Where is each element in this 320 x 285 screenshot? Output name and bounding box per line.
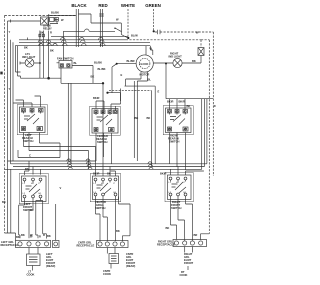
svg-text:BL: BL (148, 78, 152, 82)
terminal strip TB3 right grill receptacle (173, 240, 207, 247)
wire LP1 left terminal (20, 62, 25, 65)
svg-text:RECEPTACLE: RECEPTACLE (77, 244, 95, 248)
wire riser to E (102, 83, 104, 176)
terminal strip TB1 left grill receptacle (16, 240, 51, 247)
wire light to clock (153, 62, 173, 64)
switch S2 enclosure (90, 106, 121, 135)
node junction white (127, 37, 129, 39)
wire red supply pair (99, 9, 104, 47)
node T terminal left (10, 20, 12, 23)
wire fan switch feed (62, 31, 64, 60)
wire clock top feed (146, 46, 153, 55)
svg-text:RELAY: RELAY (43, 27, 52, 31)
svg-text:SWITCH: SWITCH (95, 206, 106, 210)
element left grill (27, 254, 41, 266)
wire label BK relay drop (50, 49, 54, 53)
wire fuse to light (182, 56, 201, 64)
svg-text:E: E (121, 73, 123, 77)
switch S7 enclosure (165, 173, 193, 202)
switch S6 enclosure (90, 174, 121, 202)
lamp right indicator light (173, 58, 182, 67)
wire light junction to S3 (166, 64, 213, 99)
svg-text:BK: BK (25, 167, 29, 171)
terminal strip TB1 top wires (16, 186, 62, 240)
svg-text:BLACK: BLACK (71, 3, 87, 8)
wire white dashed to fuse (129, 31, 201, 48)
switch S6 center grill (93, 176, 119, 200)
svg-text:RECEPTACLE: RECEPTACLE (157, 243, 175, 247)
switch S2 center rear (92, 109, 118, 134)
switch S5 bottom leads (19, 198, 47, 239)
switch S3 top leads (167, 99, 190, 110)
node junction k (102, 82, 104, 84)
svg-text:FRONT: FRONT (184, 261, 193, 265)
element center grill wires (107, 248, 115, 269)
wire bus y45 (15, 43, 150, 45)
wire left riser 2 (8, 21, 12, 233)
svg-text:BK: BK (187, 104, 191, 108)
wire clock left feed (112, 63, 136, 93)
switch S5 top leads (25, 161, 41, 175)
svg-text:Y: Y (9, 87, 11, 91)
wire label BK strip3 (166, 226, 170, 230)
svg-text:BK: BK (50, 49, 54, 53)
terminal strip TB2 top wires (100, 229, 120, 238)
node chassis junction (47, 77, 50, 80)
svg-text:R: R (50, 31, 52, 35)
element center grill (109, 254, 119, 264)
svg-text:IND LIGHT: IND LIGHT (169, 55, 183, 59)
switch S1 left rear (20, 107, 46, 133)
wire mid bus y164 (11, 162, 207, 164)
wire left riser 3 (11, 40, 14, 164)
wire relay feed (11, 20, 41, 22)
svg-text:FAN SWITCH: FAN SWITCH (57, 57, 74, 61)
wire label Y left (9, 30, 28, 91)
wire label W door (116, 18, 138, 38)
svg-text:BK/R: BK/R (179, 100, 186, 104)
svg-text:GREEN: GREEN (145, 3, 161, 8)
wire label BL/BK fan right (74, 61, 106, 79)
terminal strip TB1 label (1, 240, 19, 247)
wire right drop to strip3 (201, 234, 210, 240)
node junction light feed (165, 63, 167, 65)
svg-text:E: E (158, 90, 160, 94)
svg-text:(REAR): (REAR) (126, 264, 135, 268)
clock motor M1 (136, 55, 153, 72)
svg-text:BK: BK (135, 116, 139, 120)
node junction green (153, 30, 155, 32)
svg-text:BL/BK: BL/BK (51, 11, 59, 15)
wire label BK left margin (2, 200, 6, 204)
switch S1 top leads (13, 96, 41, 107)
svg-text:BK: BK (21, 233, 25, 237)
svg-text:SWITCH: SWITCH (169, 140, 180, 144)
wire label W (61, 18, 64, 22)
wire black supply pair (76, 9, 78, 47)
wire label D right (214, 104, 216, 108)
element right grill bottom label (180, 270, 188, 277)
svg-text:BK: BK (166, 226, 170, 230)
switch S3 enclosure (163, 106, 193, 135)
wire right riser 2 (201, 99, 203, 170)
wire bus y42 (19, 40, 150, 42)
switch S2 top leads (96, 89, 121, 111)
terminal strip TB3 label (157, 240, 175, 247)
switch S5 left front (22, 176, 47, 202)
wire bus y36 (51, 35, 128, 37)
wire relay drop 3 (48, 31, 50, 79)
switch S7 top leads (160, 167, 186, 176)
svg-text:CLOCK: CLOCK (139, 62, 148, 66)
switch S7 right front (168, 175, 192, 200)
wire label BL/BK relay top (49, 11, 76, 16)
wire label BK/R above S2 (93, 96, 100, 100)
element left grill wires (29, 248, 38, 271)
switch S2 bottom leads (96, 133, 112, 164)
switch S3 right rear (166, 108, 192, 133)
svg-text:BK: BK (107, 172, 111, 176)
switch S3 label (168, 134, 180, 144)
wire green supply (153, 9, 155, 31)
svg-text:BK: BK (147, 116, 151, 120)
wire relay drop 1 (39, 31, 41, 79)
wire y78 run (18, 76, 62, 78)
relay K1 oven relay (41, 14, 59, 30)
switch S4 fan switch (59, 61, 72, 69)
wire clock lower link (125, 78, 156, 164)
wire relay drop 2 (42, 31, 44, 79)
oven door switch diagonal contacts (78, 14, 128, 38)
wire y83 run (61, 82, 103, 84)
relay K1 label (43, 24, 52, 31)
svg-text:BK: BK (16, 235, 20, 239)
wire label BK below relay (40, 31, 52, 35)
svg-text:BL/BK: BL/BK (94, 61, 102, 65)
wire mid bus y157 (18, 150, 60, 158)
element left grill bottom label (27, 270, 35, 277)
svg-text:BL: BL (74, 61, 78, 65)
wire top left dashed run (5, 15, 76, 17)
element left grill side label (46, 252, 55, 268)
svg-text:BK/R: BK/R (93, 172, 100, 176)
switch S2 label (96, 134, 108, 144)
wire label BK mid (135, 116, 151, 120)
svg-text:V: V (60, 186, 62, 190)
wire mid bus y169 (5, 167, 202, 169)
svg-text:BK/R: BK/R (93, 96, 100, 100)
switch S6 bottom leads (96, 196, 131, 241)
wire dashed mid link (109, 90, 160, 167)
switch S7 label (171, 200, 182, 210)
wire right riser 4 (206, 99, 208, 164)
terminal strip TB3 top wires (176, 233, 200, 241)
wire mid bus y161 (8, 159, 97, 161)
switch S3 bottom leads (170, 133, 186, 171)
clock label (139, 62, 149, 77)
svg-text:BK: BK (47, 234, 51, 238)
wire bus y40 (19, 38, 128, 40)
svg-text:Y: Y (9, 30, 11, 34)
wire left riser 4 (16, 46, 21, 76)
wire clock bottom leads (126, 72, 148, 162)
element center grill bottom label (103, 269, 111, 276)
svg-text:BK: BK (91, 75, 95, 79)
svg-text:COOK: COOK (27, 273, 35, 277)
element center grill side label (126, 252, 135, 268)
fuse F1 (198, 48, 204, 56)
connector left aux (53, 241, 60, 248)
svg-text:BK: BK (116, 229, 120, 233)
svg-text:BK: BK (192, 59, 196, 63)
svg-text:D: D (214, 104, 216, 108)
svg-text:BK/R: BK/R (167, 100, 174, 104)
wire bus L1 y31 (63, 29, 115, 31)
wire label BL/BR clock (127, 59, 135, 63)
svg-text:BL/W: BL/W (131, 34, 138, 38)
svg-text:R: R (39, 235, 41, 239)
svg-text:BK/R: BK/R (160, 172, 167, 176)
wire fan to junction (57, 63, 94, 84)
svg-text:COOK: COOK (180, 273, 188, 277)
wire right riser 3 (204, 99, 206, 167)
switch S1 bottom leads (24, 133, 96, 170)
wire left risers to strip (5, 169, 16, 240)
wire left riser group (4, 16, 6, 234)
switch S6 top leads (93, 157, 116, 176)
svg-text:BL/BK: BL/BK (98, 67, 106, 71)
svg-text:SWITCH: SWITCH (23, 139, 34, 143)
svg-text:(REAR): (REAR) (46, 264, 55, 268)
svg-text:BK: BK (24, 46, 28, 50)
svg-text:SWITCH: SWITCH (171, 206, 182, 210)
switch S5 label (23, 202, 34, 212)
lamp right indicator label (169, 52, 183, 59)
switch S6 label (95, 200, 106, 210)
svg-text:IND LIGHT: IND LIGHT (22, 55, 36, 59)
wire y92 run (106, 92, 120, 101)
element right grill wires (185, 247, 193, 271)
switch S1 enclosure (17, 105, 47, 135)
svg-text:BL/BR: BL/BR (127, 59, 135, 63)
terminal strip TB2 center grill receptacle (97, 241, 129, 248)
svg-text:SWITCH: SWITCH (97, 140, 108, 144)
wire right riser 5 (186, 170, 204, 172)
node light junction (39, 62, 41, 64)
wire label E mid (121, 73, 123, 77)
wire green dashed to right edge (155, 32, 214, 176)
terminal left margin (0, 72, 2, 75)
svg-text:COOK: COOK (103, 272, 111, 276)
connector plug green line (158, 30, 161, 34)
svg-text:BR: BR (194, 233, 198, 237)
switch S5 enclosure (19, 174, 48, 204)
wire white supply (127, 9, 129, 38)
svg-text:RECEPTACLE: RECEPTACLE (1, 243, 19, 247)
wire mid bus y166 (13, 165, 205, 167)
switch S1 label (22, 133, 34, 143)
svg-text:RED: RED (98, 3, 107, 8)
wire right riser 1 (201, 40, 209, 234)
lamp LP1 label (22, 52, 36, 59)
svg-text:WHITE: WHITE (121, 3, 135, 8)
svg-text:C: C (29, 154, 31, 158)
svg-text:BK: BK (2, 200, 6, 204)
switch S4 label (57, 57, 74, 61)
switch S7 bottom leads (171, 196, 193, 237)
wire riser pair to D (68, 83, 71, 164)
element right grill label (184, 252, 193, 265)
lamp LP1 indicator (25, 58, 40, 67)
svg-text:R: R (43, 233, 45, 237)
terminal strip TB2 label (77, 241, 95, 248)
